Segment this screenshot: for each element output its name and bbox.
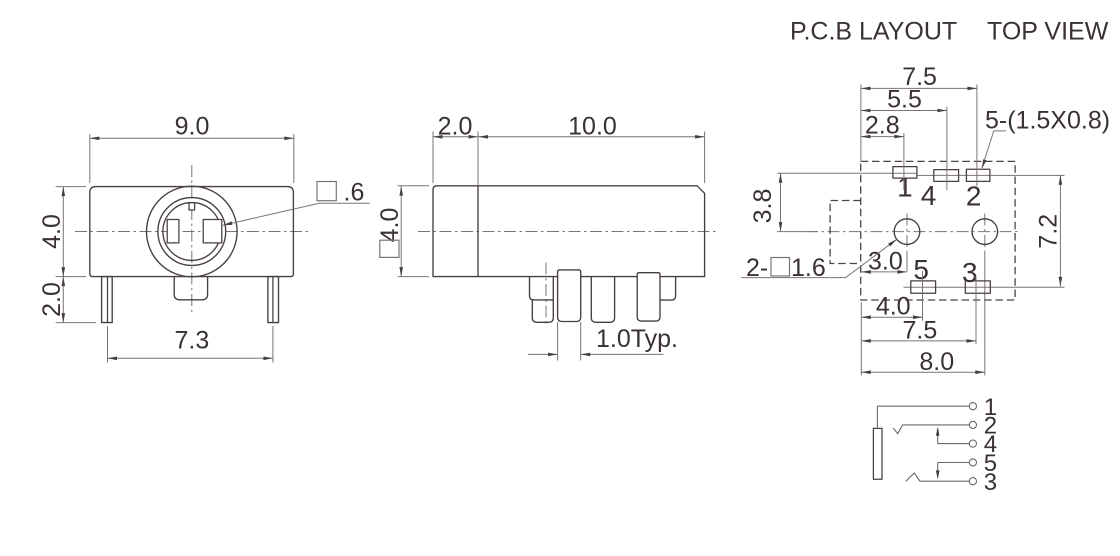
svg-text:4.0: 4.0 xyxy=(38,214,66,249)
svg-text:3: 3 xyxy=(984,469,997,496)
svg-text:4.0: 4.0 xyxy=(376,208,404,243)
svg-text:7.5: 7.5 xyxy=(903,317,938,345)
svg-text:5: 5 xyxy=(913,254,929,285)
svg-text:2.8: 2.8 xyxy=(865,111,900,139)
svg-text:1.0Typ.: 1.0Typ. xyxy=(596,325,678,353)
svg-text:9.0: 9.0 xyxy=(175,113,210,141)
svg-text:8.0: 8.0 xyxy=(919,348,954,376)
svg-text:1: 1 xyxy=(897,172,913,203)
svg-text:3.8: 3.8 xyxy=(749,189,777,224)
svg-text:7.3: 7.3 xyxy=(175,326,210,354)
svg-text:.6: .6 xyxy=(344,178,365,206)
svg-text:7.2: 7.2 xyxy=(1034,214,1062,249)
svg-text:5-(1.5X0.8): 5-(1.5X0.8) xyxy=(985,106,1110,134)
svg-text:2: 2 xyxy=(966,180,982,211)
svg-text:3: 3 xyxy=(962,257,978,288)
svg-text:2.0: 2.0 xyxy=(438,113,473,141)
svg-text:4: 4 xyxy=(921,180,937,211)
svg-text:10.0: 10.0 xyxy=(568,113,617,141)
svg-text:3.0: 3.0 xyxy=(868,248,903,276)
svg-text:TOP VIEW: TOP VIEW xyxy=(987,17,1109,45)
svg-text:P.C.B LAYOUT: P.C.B LAYOUT xyxy=(790,17,957,45)
svg-text:2.0: 2.0 xyxy=(38,282,66,317)
svg-text:5.5: 5.5 xyxy=(887,85,922,113)
